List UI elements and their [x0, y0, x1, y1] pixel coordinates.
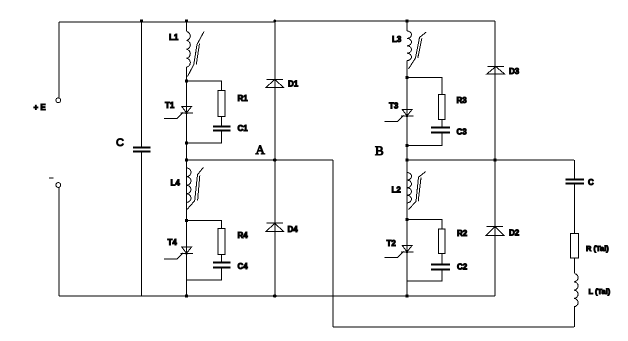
diode D2: [486, 226, 504, 235]
capacitor C (DC link): [133, 148, 151, 152]
terminal minus: [56, 183, 61, 188]
svg-text:D1: D1: [288, 80, 299, 89]
resistor R(Tal): [571, 234, 579, 259]
node L3-R3 junction: [405, 76, 408, 79]
node top-L3 junction: [405, 19, 408, 22]
wire DC-link cap branch: [141, 21, 143, 296]
node A-D junction: [273, 158, 276, 161]
inductor L(Tal): [574, 274, 578, 307]
svg-text:R2: R2: [457, 229, 468, 238]
label L3: [392, 35, 402, 44]
label node A: [256, 142, 266, 157]
inductor L2: [407, 173, 412, 203]
label minus: [49, 177, 54, 179]
wire R4C4 snubber loop: [187, 221, 222, 281]
resistor R1: [218, 91, 225, 117]
svg-text:R (Tal): R (Tal): [586, 244, 609, 253]
svg-text:B: B: [375, 143, 384, 158]
svg-text:L3: L3: [392, 35, 402, 44]
node C1-T1 junction: [185, 141, 188, 144]
label C1: [238, 124, 249, 133]
wire load return bottom: [333, 326, 574, 328]
wire left diode branch: [274, 21, 276, 296]
svg-text:L (Tal): L (Tal): [589, 287, 611, 296]
wire L4 hang: [186, 160, 188, 168]
svg-text:T2: T2: [387, 239, 397, 248]
svg-text:L2: L2: [392, 186, 402, 195]
node top-L1 junction: [185, 19, 188, 22]
label L4: [171, 179, 181, 188]
label D2: [509, 229, 520, 238]
thyristor T1: [164, 107, 193, 119]
svg-text:R1: R1: [238, 94, 249, 103]
wire load branch lower: [573, 307, 575, 327]
svg-text:C4: C4: [238, 262, 249, 271]
inductor L3: [407, 31, 412, 61]
wire load branch mid: [573, 258, 575, 273]
L1 coupled winding slash: [188, 32, 205, 77]
label C3: [457, 128, 468, 137]
svg-text:D4: D4: [288, 225, 299, 234]
svg-text:A: A: [256, 142, 266, 157]
svg-text:C1: C1: [238, 124, 249, 133]
node bottom-T4 junction: [185, 294, 188, 297]
label D1: [288, 80, 299, 89]
svg-text:C: C: [588, 178, 594, 187]
wire R3C3 snubber loop: [407, 78, 442, 146]
node L4-R4 junction: [185, 219, 188, 222]
label R3: [457, 96, 468, 105]
thyristor T2: [385, 246, 414, 258]
node top-C junction: [140, 19, 143, 22]
node L2-R2 junction: [405, 218, 408, 221]
capacitor C3: [431, 128, 450, 133]
svg-text:T4: T4: [168, 238, 178, 247]
capacitor C load: [566, 180, 585, 184]
label R(Tal): [586, 244, 609, 253]
capacitor C1: [213, 127, 231, 131]
node A-T junction: [185, 158, 188, 161]
wire left thyristor branch upper: [186, 21, 188, 31]
wire minus lead: [58, 188, 60, 297]
node top-D1 junction: [273, 20, 276, 23]
wire A to load return: [332, 160, 334, 327]
label T3: [389, 102, 399, 111]
label R1: [238, 94, 249, 103]
svg-text:C2: C2: [457, 263, 468, 272]
wire L2 to bottom: [406, 203, 408, 296]
capacitor C4: [213, 263, 231, 268]
wire +E lead: [58, 22, 60, 98]
wire right thyristor branch upper: [406, 21, 408, 31]
capacitor C2: [431, 265, 450, 270]
node C3-T3 junction: [405, 144, 408, 147]
svg-text:T3: T3: [389, 102, 399, 111]
wire node B mid rail: [407, 159, 574, 161]
label L1: [169, 33, 179, 42]
label C4: [238, 262, 249, 271]
svg-text:R4: R4: [238, 231, 249, 240]
wire left thyristor branch lower: [186, 67, 188, 296]
diode D4: [266, 223, 284, 231]
label T1: [165, 101, 175, 110]
wire right thyristor branch lower: [406, 61, 408, 296]
svg-text:C3: C3: [457, 128, 468, 137]
svg-text:L4: L4: [171, 179, 181, 188]
label C2: [457, 263, 468, 272]
L4 coupled winding slash: [187, 167, 204, 209]
inductor L4: [187, 168, 192, 202]
label C (DC link): [116, 137, 124, 149]
label C load: [588, 178, 594, 187]
label R4: [238, 231, 249, 240]
L3 coupled winding slash: [409, 32, 427, 69]
label node B: [375, 143, 384, 158]
label D3: [509, 67, 520, 76]
wire load branch upper: [573, 160, 575, 234]
diode D1: [266, 79, 284, 87]
label R2: [457, 229, 468, 238]
svg-text:D3: D3: [509, 67, 520, 76]
label L2: [392, 186, 402, 195]
inductor L1: [187, 32, 191, 68]
wire right diode branch: [494, 21, 496, 296]
node bottom-T2 junction: [405, 294, 408, 297]
wire R1C1 snubber loop: [187, 81, 222, 143]
label T4: [168, 238, 178, 247]
label L(Tal): [589, 287, 611, 296]
svg-text:C: C: [116, 137, 124, 149]
resistor R2: [438, 229, 445, 254]
label +E: [34, 103, 47, 112]
svg-text:D2: D2: [509, 229, 520, 238]
svg-text:R3: R3: [457, 96, 468, 105]
svg-text:T1: T1: [165, 101, 175, 110]
resistor R3: [438, 95, 445, 120]
resistor R4: [218, 228, 225, 254]
L2 coupled winding slash: [409, 172, 426, 210]
label T2: [387, 239, 397, 248]
label D4: [288, 225, 299, 234]
thyristor T3: [385, 110, 414, 122]
wire R2C2 snubber loop: [407, 220, 442, 282]
wire L4 to bottom: [186, 202, 188, 296]
terminal +E: [56, 98, 61, 103]
svg-text:L1: L1: [169, 33, 179, 42]
wire bottom rail: [59, 295, 495, 297]
thyristor T4: [164, 247, 193, 259]
wire node A mid rail: [186, 159, 333, 161]
diode D3: [487, 66, 505, 74]
node L1-R1 junction: [185, 79, 188, 82]
wire top rail: [59, 21, 495, 22]
node bottom-D4 junction: [273, 294, 276, 297]
svg-text:+ E: + E: [34, 103, 47, 112]
wire L2 hang: [406, 160, 408, 173]
node B-T junction: [405, 158, 408, 161]
node B-D junction: [493, 158, 496, 161]
